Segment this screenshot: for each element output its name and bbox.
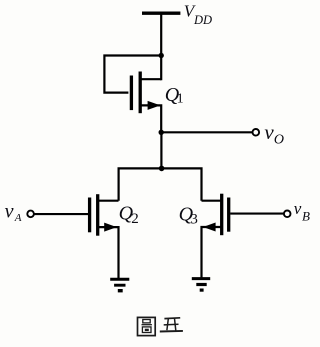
wire Q3 drain lead [202, 200, 222, 202]
svg-text:1: 1 [177, 91, 184, 106]
wire drain rail to Q2 and Q3 [119, 168, 202, 200]
transistor Q1 source arrow [148, 101, 161, 110]
caption character TU (figure) [138, 317, 156, 335]
transistor Q3 source arrow [203, 223, 216, 232]
label VDD [184, 1, 212, 26]
svg-text:B: B [302, 208, 310, 223]
node output junction dot [159, 130, 164, 135]
label Q2 [119, 203, 139, 227]
wire output node down to sources rail [160, 132, 162, 168]
power rail VDD bar [142, 11, 180, 14]
transistor Q1 channel bar [139, 72, 142, 114]
svg-text:v: v [264, 120, 274, 144]
svg-text:O: O [274, 133, 284, 148]
svg-text:A: A [14, 212, 22, 224]
wire output to terminal [161, 131, 252, 133]
transistor Q2 channel bar [96, 194, 99, 236]
wire Q2 gate lead [34, 213, 88, 215]
transistor Q3 gate bar [227, 198, 230, 232]
svg-text:DD: DD [193, 13, 212, 27]
transistor Q1 gate bar [130, 76, 133, 111]
wire Q3 source lead [202, 227, 222, 278]
node rail junction dot [159, 166, 165, 172]
transistor Q3 channel bar [220, 194, 223, 236]
label vB [294, 199, 310, 224]
wire Q1 drain lead [140, 78, 161, 80]
terminal vO open circle [253, 129, 260, 136]
ground left [110, 279, 129, 291]
label Q1 [165, 84, 184, 106]
wire Q3 gate lead [230, 213, 284, 215]
terminal vA open circle [27, 211, 34, 218]
caption character WU (five) [160, 318, 183, 332]
wire gate feedback loop [104, 56, 161, 93]
transistor Q2 source arrow [104, 223, 117, 232]
node junction dot gate-drain tie [159, 53, 164, 58]
terminal vB open circle [284, 211, 291, 218]
label Q3 [179, 204, 198, 228]
svg-text:v: v [5, 200, 14, 222]
wire VDD to Q1 drain [160, 13, 162, 80]
wire Q2 drain lead [98, 200, 119, 202]
wire Q2 source lead [98, 227, 119, 278]
svg-text:2: 2 [131, 211, 139, 227]
label vO [264, 120, 284, 148]
svg-text:v: v [294, 199, 302, 218]
transistor Q2 gate bar [88, 198, 91, 233]
label vA [5, 200, 22, 224]
wire Q1 source lead [140, 105, 161, 132]
ground right [192, 279, 210, 291]
svg-text:3: 3 [190, 212, 198, 228]
